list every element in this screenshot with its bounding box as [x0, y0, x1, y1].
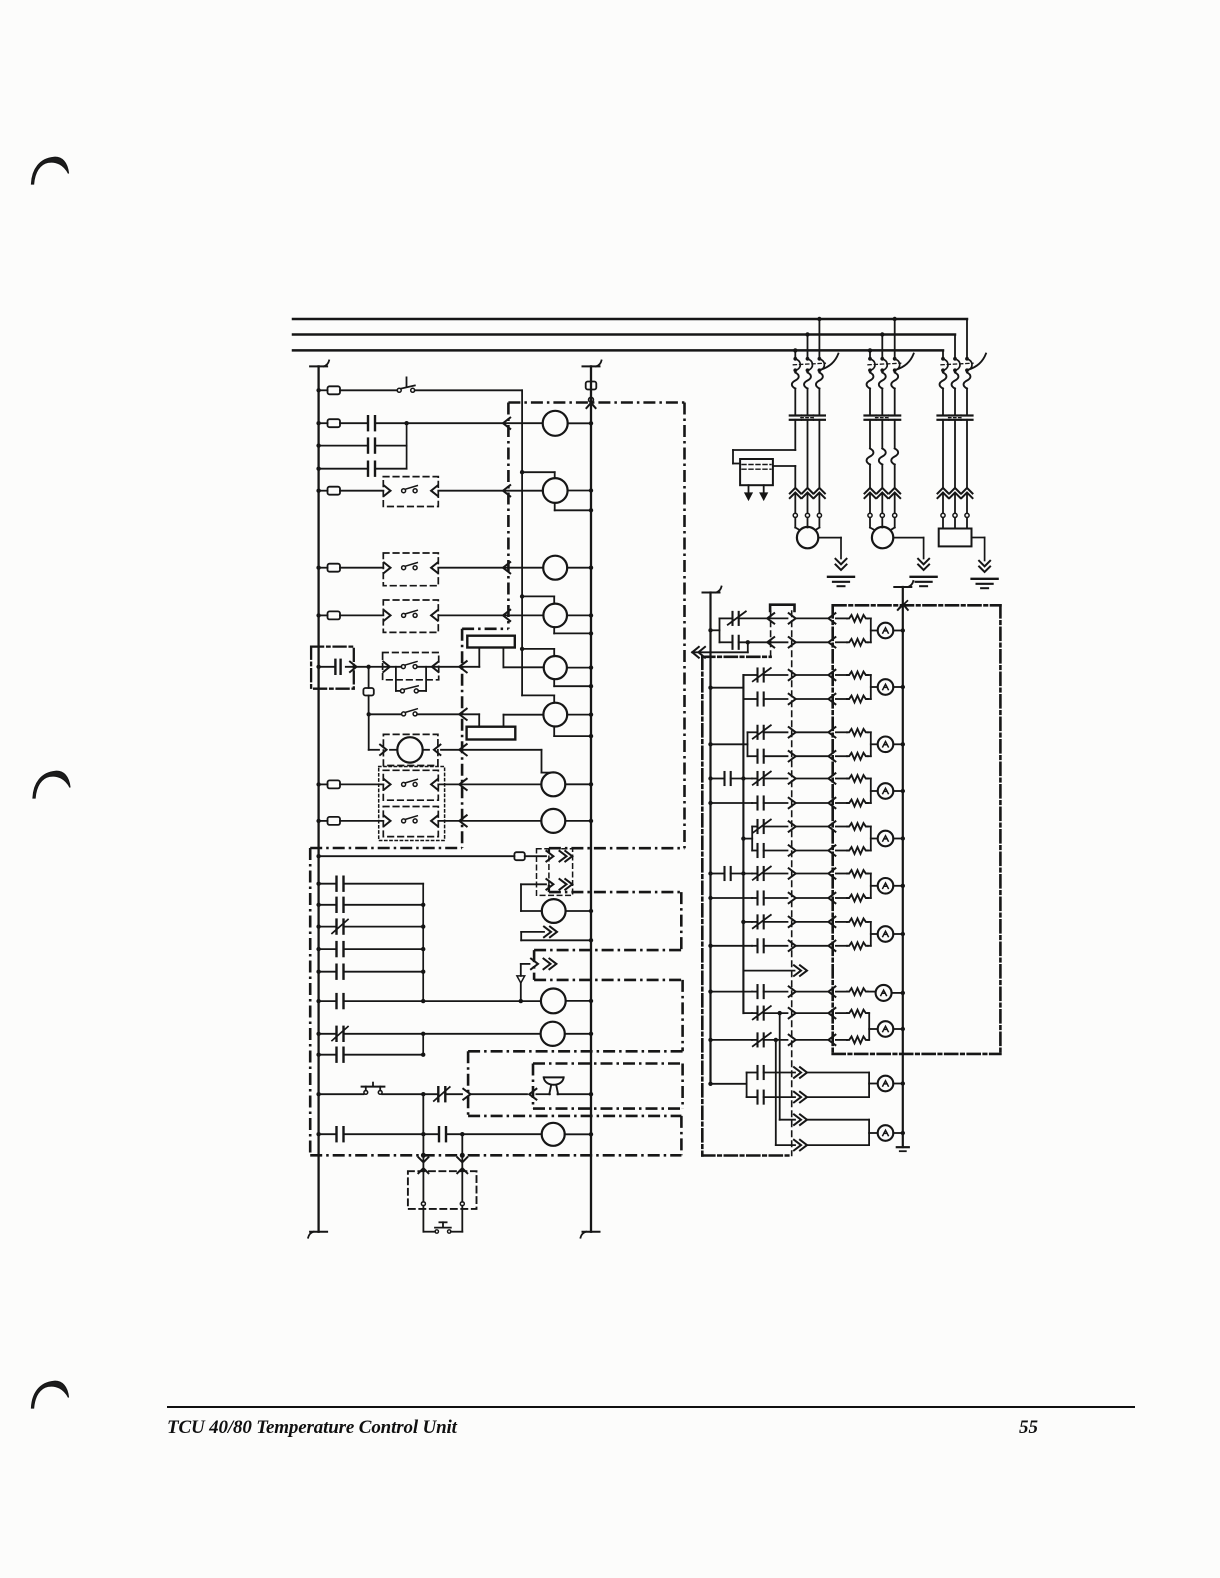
wire coil2 bottom step — [554, 503, 556, 510]
lamp bracket — [870, 732, 872, 756]
remote station box — [408, 1171, 477, 1209]
wire drop B — [461, 1134, 463, 1171]
resistor — [836, 921, 847, 923]
contact p9 (NO) — [747, 1096, 758, 1098]
node rung7 — [367, 712, 371, 716]
terminal tick lamp rail — [894, 586, 911, 588]
relay contact box rung9 — [383, 770, 438, 800]
resistor — [836, 778, 847, 780]
connector arrow screen — [459, 815, 466, 826]
feeder stub p2 — [708, 686, 712, 690]
wire coil5 bottom step — [553, 679, 555, 686]
heater plate 1 — [467, 636, 515, 648]
connector node on rail — [589, 397, 594, 402]
node rung2 branch — [404, 421, 408, 425]
wire m-row — [319, 904, 337, 906]
indicator lamp — [878, 783, 894, 799]
contact row (NC) — [752, 778, 758, 780]
resistor — [836, 641, 847, 643]
circuit breaker CB3 — [941, 357, 945, 361]
plug pin — [789, 917, 796, 927]
wire lamp to rail — [893, 790, 903, 792]
plug pin screen — [828, 917, 835, 927]
aux box output wire — [773, 465, 795, 467]
plug pin — [789, 986, 796, 996]
terminal block on right rail — [586, 382, 597, 390]
wire lamp to rail — [893, 1028, 903, 1030]
wire rung2 — [319, 422, 328, 424]
connector arrow boundary — [529, 1089, 536, 1100]
feeder stub p4 — [708, 776, 712, 780]
resistor — [836, 698, 847, 700]
switch S7 — [402, 712, 406, 716]
wire plate1 down — [502, 648, 504, 668]
contact (NO NC) — [335, 1027, 337, 1041]
resistor — [836, 897, 847, 899]
screen line x681b — [680, 1116, 683, 1155]
wire vertical drop x522 — [521, 390, 523, 472]
overload elements CB3 — [940, 373, 947, 389]
plug pin screen — [828, 1035, 835, 1045]
relay contact box rung4 (remote) — [383, 553, 438, 586]
wire rung3 — [438, 490, 543, 492]
lamp bracket — [870, 922, 872, 946]
plug bracket top — [770, 605, 794, 611]
resistor — [836, 826, 847, 828]
wire m-row — [319, 971, 337, 973]
node rail-rung6 — [316, 665, 320, 669]
wire tee down — [368, 714, 370, 750]
ground G3 — [972, 537, 985, 539]
node step coil5 — [520, 647, 524, 651]
wire rung2 — [340, 422, 368, 424]
screen box around indicator bank — [834, 604, 1001, 607]
contact row (NC) — [752, 921, 758, 923]
contact row (NO) — [752, 991, 758, 993]
wire pole drop x807.5 — [807, 335, 809, 359]
connector arrow screen — [459, 709, 466, 720]
contact (NO) — [335, 965, 337, 979]
contact row (NC) — [752, 826, 757, 828]
wire m-row — [319, 1000, 337, 1002]
wire pole continuations — [807, 420, 809, 488]
aux device box (brake rectifier) — [740, 459, 773, 485]
rail crossing symbol — [898, 601, 907, 610]
page number 55 — [1019, 1417, 1038, 1439]
wire step coil5 top — [522, 648, 554, 650]
contact K2c (NO) parallel — [319, 468, 368, 470]
resistor — [836, 731, 847, 733]
connector arrow — [432, 662, 439, 672]
contact row (NC) — [743, 674, 757, 676]
coil M3 contactor — [543, 556, 567, 580]
feeder end stub p9 — [708, 1082, 712, 1086]
wire vertical x522 — [521, 472, 523, 695]
resistor — [836, 991, 847, 993]
node rail m-row — [316, 903, 320, 907]
node rail-rung5 — [316, 613, 320, 617]
bus L2 — [293, 333, 955, 336]
plug pin — [789, 670, 796, 680]
node rail m-row — [316, 1032, 320, 1036]
plug pin screen — [828, 751, 835, 761]
wire rung2 — [375, 422, 407, 424]
connector arrow rung2 — [503, 418, 510, 429]
motor M1 — [797, 527, 818, 548]
row L3 connector stub — [521, 931, 544, 933]
screen line x681 — [680, 892, 683, 950]
terminal block rung2 — [328, 419, 341, 427]
connector arrow screen — [459, 779, 466, 790]
node rail-rung10 — [316, 819, 320, 823]
screen line vertical x508 — [507, 403, 510, 629]
plug pin — [789, 941, 796, 951]
feeder stub p6 — [708, 871, 712, 875]
wire lamp to rail — [893, 630, 903, 632]
connector arrow — [434, 745, 441, 755]
plug column B dashed — [791, 611, 793, 1156]
node x522 step2 — [520, 594, 524, 598]
motor M2 — [872, 527, 893, 548]
wire tee down to terminal — [368, 667, 370, 688]
horn enclosure box — [533, 1062, 683, 1065]
screen line tall right x684 — [683, 403, 686, 849]
footer rule — [167, 1406, 1135, 1409]
contact (NO) — [335, 898, 337, 912]
plug pin — [789, 821, 796, 831]
wire m-row — [319, 926, 337, 928]
terminal tick right top — [583, 365, 600, 367]
contactor contacts (main poles) — [790, 414, 801, 416]
footer title — [167, 1417, 457, 1439]
resistor — [836, 802, 847, 804]
plug pin — [789, 727, 796, 737]
node m10b — [460, 1132, 464, 1136]
resistor — [836, 850, 847, 852]
plug pin — [789, 798, 796, 808]
indicator lamp A — [876, 985, 892, 1001]
plug pin — [789, 613, 796, 623]
terminal block rung1 — [328, 386, 341, 394]
plug column A dashed — [770, 611, 772, 657]
screen line y848 right — [549, 847, 685, 850]
aux box arrows — [748, 485, 750, 493]
wire rung1 — [340, 389, 397, 391]
wire rung1 to drop — [415, 389, 522, 391]
wire coil4 bottom step — [553, 627, 555, 633]
wire lamp to rail — [893, 885, 903, 887]
wire rung6 — [439, 666, 480, 668]
screen line vertical x462 — [461, 629, 464, 848]
indicator lamp — [878, 878, 894, 894]
screen line x534 — [533, 950, 536, 980]
wire pole drop x795.3 — [794, 350, 796, 358]
feeder stub p7 — [741, 920, 745, 924]
contact row (NC) — [752, 1039, 758, 1041]
wire L2 to coil — [521, 883, 546, 885]
node x522 step — [520, 470, 524, 474]
node boundary crossings — [421, 1153, 426, 1158]
wire to coil6 — [504, 714, 544, 716]
coil M4 contactor — [543, 604, 567, 628]
indicator lamp — [878, 1076, 894, 1092]
feeder stub p3 — [708, 742, 712, 746]
wire coil2 to rail — [568, 490, 591, 492]
inter-row dashed link — [548, 856, 550, 884]
plug pin screen — [828, 637, 835, 647]
circuit breaker CB1 — [793, 357, 797, 361]
resistor — [836, 1012, 847, 1014]
lamp bracket — [868, 1073, 870, 1098]
screen line y1051 — [468, 1050, 682, 1053]
cable connectors (chevrons) — [790, 488, 801, 494]
interlock wire to left — [692, 647, 699, 658]
screen frame 2 — [702, 655, 770, 658]
plug pin screen — [828, 986, 835, 996]
wire pole drop x870.0 — [869, 350, 871, 358]
indicator lamp — [878, 1125, 894, 1141]
plug pin — [789, 694, 796, 704]
contact row (NO) — [752, 897, 758, 899]
node p1 branch — [746, 640, 750, 644]
contact p6 pre (NO) — [723, 867, 725, 880]
contact (NO) — [335, 942, 337, 956]
connector arrow — [383, 662, 390, 672]
indicator lamp — [878, 623, 894, 639]
lamp bracket — [868, 1013, 870, 1040]
node bus junctions — [793, 348, 797, 352]
node rail m-row — [316, 970, 320, 974]
overload elements CB2 — [867, 373, 874, 389]
wire A to button — [422, 1206, 424, 1232]
wire lamp to rail — [893, 933, 903, 935]
node rail-rung3 — [316, 489, 320, 493]
wire rung6 — [369, 666, 383, 668]
screen jog — [462, 627, 508, 630]
wire pole drop x943.0 — [942, 350, 944, 358]
contact p9 (NO) — [747, 1072, 758, 1074]
wire coil1 to rail — [568, 422, 591, 424]
wire to aux box — [794, 420, 796, 450]
lamp bracket — [868, 1120, 870, 1145]
wire m-row — [319, 883, 337, 885]
node rail m-row — [316, 947, 320, 951]
node rail m9 — [316, 1092, 320, 1096]
row L2 connector plug — [546, 879, 553, 890]
wire pole drop x819.4 — [818, 319, 820, 359]
terminal tick left top — [310, 365, 327, 367]
contact K6 (NO) — [319, 666, 336, 668]
contact (NO) — [335, 994, 337, 1008]
wire m9-m10 link — [422, 1094, 424, 1134]
contact row (NC) — [748, 731, 758, 733]
row L4 connector stub — [521, 963, 530, 965]
screen line x682 — [681, 980, 684, 1051]
switch S1 (knife) — [397, 388, 401, 392]
plug pin screen — [828, 941, 835, 951]
feeder rail F1 — [709, 593, 711, 1084]
node rail m-row — [316, 924, 320, 928]
bus L3 — [293, 349, 943, 352]
wire drop A — [422, 1134, 424, 1171]
node rail-rung2 — [316, 421, 320, 425]
relay contact box rung3 (remote) — [383, 477, 438, 507]
plug pin screen — [828, 798, 835, 808]
sensor element B8 — [397, 737, 422, 762]
connector arrow boundary — [463, 1089, 470, 1100]
heater plate 2 — [467, 727, 516, 740]
indicator lamp — [878, 831, 894, 847]
wire step coil6 top — [522, 694, 554, 696]
node rail m-row — [316, 999, 320, 1003]
node rail m-row — [316, 1053, 320, 1057]
plug pin screen — [828, 845, 835, 855]
plug pin — [789, 845, 796, 855]
wire lamp to rail — [893, 838, 903, 840]
resistor — [836, 873, 847, 875]
indicator lamp — [878, 1021, 894, 1037]
terminal block rung4 — [328, 564, 341, 572]
node m10 — [421, 1132, 425, 1136]
resistor — [836, 755, 847, 757]
wire step to coil7 top — [541, 750, 543, 773]
plug pin screen — [828, 821, 835, 831]
load resistor bank — [939, 529, 972, 547]
switch pair box rung6 — [383, 653, 439, 680]
pilot device B9 — [541, 989, 566, 1014]
coil M5 contactor — [544, 656, 567, 679]
pushbutton S9 — [364, 1091, 368, 1095]
connector arrow screen — [459, 744, 466, 755]
overload elements CB1 — [792, 373, 799, 389]
screen line y950 — [534, 949, 681, 952]
contact m10b (NO) — [438, 1127, 440, 1141]
connector chevrons B — [457, 1157, 467, 1162]
wire coil6 bottom step — [553, 727, 555, 737]
indicator lamp — [878, 926, 894, 942]
punch-hole shadow mark 2 — [33, 771, 70, 798]
terminal block rung10 — [328, 817, 341, 825]
wire m-row — [319, 948, 337, 950]
contact row (NC) — [720, 617, 733, 619]
lamp bracket — [870, 874, 872, 899]
contact row (NO) — [720, 641, 733, 643]
wire B to button — [461, 1206, 463, 1232]
ground G1 — [818, 537, 841, 539]
row L1 terminal feed — [316, 854, 320, 858]
wire rung1 — [319, 389, 328, 391]
connector arrow screen — [459, 661, 466, 672]
coil M1 contactor — [543, 411, 568, 436]
contact row (NO) — [743, 698, 757, 700]
wire pole drop x882.3 — [881, 335, 883, 359]
connector stub row — [743, 970, 794, 972]
wire lamp to rail — [893, 1083, 903, 1085]
pilot device B10 — [541, 1022, 565, 1046]
screen line y1116 — [468, 1115, 681, 1118]
wire drop to row 10b — [775, 1040, 777, 1145]
relay contact box rung5 (remote) — [383, 600, 438, 632]
node rung6 tee — [366, 665, 370, 669]
wire drop to row 10a — [779, 1013, 781, 1120]
node rail-rung9 — [316, 782, 320, 786]
screen line vertical x310 — [309, 848, 312, 1155]
feeder stub p5 — [741, 836, 745, 840]
wire plate2 up — [503, 715, 505, 727]
bus L1 — [293, 318, 967, 321]
contact row (NO) — [752, 850, 757, 852]
plug pin — [789, 751, 796, 761]
pushbutton S10 — [435, 1230, 438, 1233]
lamp bracket — [870, 827, 872, 851]
terminal block L1 — [514, 852, 524, 860]
terminal block inline — [363, 688, 373, 696]
relay contact box rung10 — [383, 807, 438, 837]
punch-hole shadow mark 3 — [32, 1381, 69, 1408]
socket B — [460, 1202, 464, 1206]
plug pin screen — [828, 893, 835, 903]
lamp bracket — [870, 675, 872, 699]
screen line x468 — [467, 1051, 470, 1116]
horn H1 — [544, 1076, 564, 1078]
connector arrow rung4 — [503, 562, 510, 573]
socket A — [421, 1202, 425, 1206]
connector arrow rung3 — [503, 485, 510, 496]
ground lamp rail — [897, 1146, 909, 1148]
contact (NC) m9 — [423, 1093, 438, 1095]
node rail m10 — [316, 1132, 320, 1136]
coil M2 contactor — [543, 478, 568, 503]
node rail-rung1 — [316, 388, 320, 392]
contact K2b (NO) parallel — [319, 445, 368, 447]
right control rail — [590, 366, 592, 1231]
screen line to left — [310, 847, 462, 850]
coil M6 contactor — [543, 703, 567, 727]
plug pin screen — [828, 727, 835, 737]
resistor — [836, 617, 847, 619]
wire pole drop x955.0 — [954, 335, 956, 359]
wire pole drop x967.0 — [966, 319, 968, 359]
wire pole drop x894.7 — [894, 319, 896, 359]
row C — [708, 1038, 712, 1042]
wire m7-m8 bus — [422, 1034, 424, 1055]
coil M7 contactor — [541, 772, 565, 796]
connector plug L1 — [546, 851, 553, 862]
punch-hole shadow mark 1 — [32, 157, 69, 184]
plug pin screen — [828, 1008, 835, 1018]
contact K2a (NO) — [367, 416, 369, 430]
connector arrow boundary — [350, 662, 357, 672]
contact (NO NC) — [335, 920, 337, 934]
plug pin — [789, 773, 796, 783]
contact m10a (NO) — [335, 1127, 337, 1141]
left control rail — [317, 366, 319, 1231]
wire m-row — [319, 1054, 337, 1056]
row B — [743, 1012, 752, 1014]
screen box around rail contact — [311, 647, 354, 689]
wire step to coil2 top — [522, 471, 555, 473]
terminal tick left bottom — [310, 1231, 327, 1233]
plug pin — [789, 893, 796, 903]
connector arrow rung5 — [503, 610, 510, 621]
lamp bracket — [870, 779, 872, 804]
ground G2 — [893, 537, 923, 539]
resistor — [836, 1039, 847, 1041]
plug pin — [789, 1008, 796, 1018]
contact row (NC) — [752, 1012, 758, 1014]
node rail-rung4 — [316, 566, 320, 570]
terminal block rung3 — [328, 487, 341, 495]
